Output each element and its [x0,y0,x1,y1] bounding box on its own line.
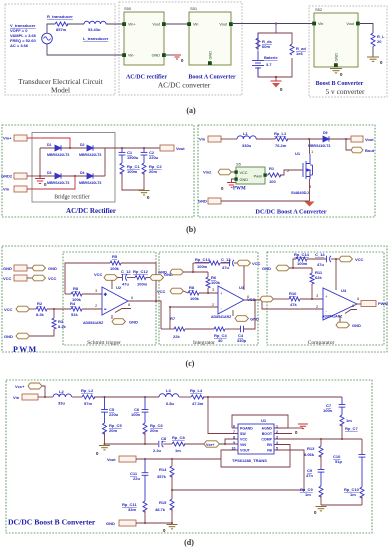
wire EN loop [221,445,290,468]
wire GND pin down [232,179,235,183]
wire rail to C7 [203,396,342,398]
svg-text:R8: R8 [189,285,195,290]
svg-text:D4: D4 [80,171,85,175]
node D1-D2 [69,147,71,149]
port hex VCC (pwm divider) [16,306,30,312]
battery Baterie 3.7 [252,51,264,78]
pin VCC (S5) [234,170,237,173]
resistor R15 [171,490,173,499]
wire C8 rail [105,443,159,445]
wire bridge top rail [40,147,105,149]
ground 0 (bridge) [35,176,45,184]
resistor R14 [171,459,173,466]
resistor Rp_C14 [296,257,307,261]
svg-text:330u: 330u [242,143,252,148]
pin Vin+ [122,22,126,26]
svg-text:6.8u: 6.8u [166,401,175,406]
Comparator dashed box [267,252,384,345]
svg-text:BOOT: BOOT [262,432,273,436]
wire pin2 row [170,306,218,308]
resistor R4 [71,307,82,311]
svg-text:GND: GND [4,334,13,339]
wire Vin2 to VCC [232,171,235,173]
ground 0 (battery) [271,77,282,88]
wire RL to ground [372,47,374,58]
wire R2 to R4 [47,308,71,310]
svg-text:AD8541ARZ: AD8541ARZ [211,315,232,319]
Schmitt trigger dashed box [63,252,156,345]
svg-text:GND: GND [129,320,138,325]
port hex VCC (comp) [339,256,353,262]
wire L3 to RpL4 [179,396,191,398]
wire rp to vxx [184,443,204,445]
pin Vin [187,22,191,26]
wire schmitt output [128,301,161,329]
svg-text:VCC: VCC [252,261,261,266]
chip U1 TPS [238,424,274,454]
svg-text:VCC: VCC [247,297,256,302]
svg-text:R8: R8 [73,286,79,291]
wire source down [309,179,311,201]
pin GND [162,53,166,57]
svg-text:PWM: PWM [378,301,388,306]
wire drain up [309,139,311,154]
svg-text:D2: D2 [80,143,85,147]
svg-text:U3: U3 [239,285,245,290]
resistor Rp_C7 [340,415,344,426]
svg-text:GND: GND [352,323,361,328]
svg-text:Si4840DJ: Si4840DJ [291,190,309,195]
wire c8 to rp [163,443,172,445]
svg-text:VCC: VCC [240,438,248,442]
wire R to L [67,23,84,25]
svg-text:Vout: Vout [107,457,116,462]
resistor R8 (integ) [188,291,199,295]
port Vout (rectifier) [160,145,174,151]
svg-text:EN: EN [267,443,272,447]
wire opamp pin4 [111,315,113,319]
wire R14 bottom [171,476,173,491]
wire pin2 vertical [169,307,171,329]
inductor L1 [237,136,256,139]
svg-text:76.2m: 76.2m [275,143,287,148]
diode D4 [87,173,93,179]
svg-text:VOUT: VOUT [240,449,251,453]
port hex GND (schmitt pwr) [150,275,164,281]
wire integ output [244,300,323,309]
wire integ pin4 gnd [232,310,234,316]
resistor Rp_L4 [191,395,204,399]
port GND rect [14,265,27,271]
svg-text:40: 40 [218,338,223,343]
svg-text:COMP: COMP [261,438,272,442]
wire C10 branch [361,439,363,453]
svg-text:357k: 357k [157,474,167,479]
svg-text:R1: R1 [269,166,275,171]
svg-text:8.2k: 8.2k [36,312,45,317]
svg-text:Rp_L4: Rp_L4 [190,388,203,393]
svg-text:GND: GND [250,317,259,322]
resistor R8 (schmitt +) [65,293,71,295]
ground 0 (rc rail) [316,507,327,511]
svg-text:20m: 20m [149,169,157,174]
wire battery stub [275,24,277,34]
wire R10 to pin3 [300,298,323,300]
node c13 left [192,271,194,273]
pin8 stub [115,309,131,313]
node vin [44,396,46,398]
svg-text:47n: 47n [306,473,313,478]
svg-text:47.3m: 47.3m [192,401,204,406]
source block S5 [236,167,265,184]
resistor R10 [289,297,300,301]
ground 0 (C5) [99,444,110,450]
node C6 [144,396,146,398]
svg-text:1m: 1m [305,492,311,497]
wire c12 to rp [127,277,135,279]
svg-text:1e6: 1e6 [296,51,303,56]
svg-text:Vin2: Vin2 [203,170,212,175]
node battery junction [275,22,277,24]
inductor L_transducer [84,21,106,24]
wire RpL1 to D5 [287,138,323,140]
resistor Rp_C6 [143,423,147,434]
svg-text:47u: 47u [122,282,129,287]
svg-text:PWM: PWM [13,345,38,354]
wire vcc chain [118,277,123,279]
wire S52 Vout to RL [360,24,373,34]
node gnd2 [39,175,41,177]
port Vin (d) [22,394,38,400]
svg-text:Rp_L2: Rp_L2 [81,388,94,393]
svg-text:D3: D3 [47,171,52,175]
svg-text:100: 100 [269,179,276,184]
wire C5 bottom [104,433,106,445]
resistor Rp_L1 [275,137,288,141]
svg-text:MBRS410LT3: MBRS410LT3 [47,153,69,157]
ground 0 (S52) [330,69,342,73]
svg-text:Vin: Vin [193,23,198,27]
svg-text:S51: S51 [190,6,198,11]
wire R15 bottom [171,509,173,524]
Integrator dashed box [159,252,258,345]
svg-text:5 v converter: 5 v converter [326,87,366,96]
capacitor C5 [101,397,108,423]
wire source bottom [47,44,124,55]
svg-text:GND: GND [262,266,271,271]
svg-text:AC/DC Rectifier: AC/DC Rectifier [66,207,116,215]
svg-text:220u: 220u [109,412,119,417]
node SW [207,396,209,398]
svg-text:SW: SW [240,432,246,436]
wire chip top rail [232,415,288,428]
port hex Bout [351,147,363,153]
svg-text:Vout: Vout [346,22,355,26]
svg-text:Vin: Vin [13,395,20,400]
resistor Rp_L2 [82,395,95,399]
svg-text:Rp_C7: Rp_C7 [345,426,358,431]
port hex GND (comp below) [336,322,350,328]
svg-text:L_transducer: L_transducer [83,36,109,41]
svg-text:D5: D5 [323,131,328,135]
svg-text:Vout: Vout [152,23,161,27]
wire L2 to RpL2 [72,396,82,398]
wire R5 to output node [121,263,156,301]
svg-text:MBRS410LT3: MBRS410LT3 [79,181,101,185]
svg-text:VCC: VCC [3,276,12,281]
wire C7 bottom [341,425,343,440]
svg-text:22u: 22u [133,476,140,481]
svg-text:220u: 220u [149,155,159,160]
svg-text:100n: 100n [131,412,141,417]
svg-text:GND: GND [198,199,207,204]
resistor R3 vertical [53,309,55,318]
svg-text:VCC: VCC [240,171,248,175]
svg-text:VCC: VCC [355,257,364,262]
resistor R_transducer [55,22,68,26]
svg-text:60m: 60m [262,44,270,49]
node C2 [143,147,145,149]
svg-text:MBRS410LT3: MBRS410LT3 [47,181,69,185]
svg-text:U1: U1 [295,151,301,156]
svg-text:DC/DC Boost A Converter: DC/DC Boost A Converter [255,209,326,216]
wire Rp_C9 bottom [320,496,322,506]
svg-text:C_13: C_13 [221,257,231,262]
svg-text:47u: 47u [317,262,324,267]
port PWM out [361,301,376,307]
AC/DC Rectifier dashed box [2,125,194,217]
block S51 Boost A Converter [189,12,231,65]
port hex VCC (integ left) [170,288,184,294]
svg-text:S5: S5 [236,162,242,167]
panel c outer dashed box [2,246,387,352]
pin Vin [312,22,316,26]
mosfet U1 Si4840DJ [303,154,313,179]
node D3-D4 [74,175,76,177]
wire pgnd stub [232,427,238,429]
resistor Rp_C11 [143,501,147,512]
svg-text:Vin-: Vin- [128,54,135,58]
block S52 Boost B Converter [314,13,358,67]
wire VOUT loop [221,450,238,459]
svg-text:GND: GND [106,521,115,526]
capacitor C_12 [123,274,128,280]
svg-text:DC/DC Boost B Converter: DC/DC Boost B Converter [8,518,96,527]
port Vout (boost A) [351,136,363,142]
resistor R2 [36,307,47,311]
resistor Rp_C12 [135,276,146,280]
wire D5 to Vout [329,138,351,140]
port hex VCC (comp left) [260,296,274,302]
node c5 gnd [104,443,106,445]
wire bridge bottom rail [40,175,105,177]
svg-text:VCC: VCC [157,289,166,294]
ground 0 (RL) [367,57,379,61]
svg-text:33m: 33m [128,507,136,512]
pin GND (S5) [234,177,237,180]
svg-text:GND: GND [48,266,57,271]
port GND (d) [119,520,136,526]
svg-text:C_12: C_12 [121,269,131,274]
wire gnd to R11 [290,267,313,269]
wire Rp_C10 bottom [361,497,363,506]
svg-text:Vcc+: Vcc+ [15,384,25,389]
svg-text:Rp_C14: Rp_C14 [294,252,310,257]
pin8 stub comp [345,310,357,314]
svg-text:R7: R7 [170,316,176,321]
port hex GND (schmitt below) [112,319,126,325]
svg-text:62k: 62k [315,275,322,280]
resistor R11 vertical [311,268,313,273]
diode D5 [323,136,329,142]
svg-text:PGAND: PGAND [240,427,253,431]
svg-text:S50: S50 [124,6,132,11]
capacitor C7 [339,397,346,415]
resistor R7 [161,328,174,330]
svg-text:MBRS410LT3: MBRS410LT3 [79,153,101,157]
capacitor C_14 [307,256,331,262]
wire source top [47,24,55,33]
svg-text:GND2: GND2 [1,174,13,179]
resistor Rp_C1 [120,163,124,174]
port hex GND (integ below) [235,316,249,322]
pin Vout [356,22,360,26]
resistor Rp_C4 [214,327,225,331]
wire vcc pwr down [111,280,113,289]
svg-text:TPS61288_TRANS: TPS61288_TRANS [232,458,267,463]
svg-text:57m: 57m [84,401,92,406]
svg-text:GND: GND [3,266,12,271]
wire R1 to gate [280,170,303,175]
svg-text:Bridge rectifier: Bridge rectifier [54,194,90,201]
bridge rectifier box [32,133,115,203]
svg-text:1500u: 1500u [127,155,139,160]
svg-text:Rp_C13: Rp_C13 [195,257,211,262]
resistor Rp_C10 [360,487,364,498]
wire C1 bottom [122,173,144,191]
capacitor C1 [119,148,126,163]
resistor Rp_C9 [319,486,323,497]
svg-text:Comparator: Comparator [308,340,335,346]
wire gnd pair [27,267,32,269]
svg-text:100m: 100m [297,261,308,266]
resistor R_L [371,33,375,46]
wire COMP rail [274,438,362,440]
svg-text:7: 7 [233,430,235,434]
diode D2 [87,145,93,151]
svg-text:AGND: AGND [262,427,273,431]
wire output rail [105,147,160,149]
svg-text:3.7: 3.7 [266,62,272,67]
ground source triangle [305,202,315,207]
wire GND rail [221,200,310,202]
wire C2 bottom [143,173,145,191]
wire vin to L2 [38,396,53,398]
port Vin (boost A) [208,136,221,142]
pin Pwm (S5) [263,173,266,176]
svg-text:R2: R2 [37,301,43,306]
node R6 bottom [207,292,209,294]
svg-text:+: + [104,292,107,297]
capacitor C10 [359,453,366,487]
svg-text:R14: R14 [159,467,167,472]
pin GND bottom [208,61,212,65]
port hex Vxx+ [204,441,219,447]
svg-text:PWM: PWM [233,187,246,192]
svg-text:U1: U1 [261,418,267,423]
svg-text:FB: FB [267,449,272,453]
5v converter dashed box [309,6,387,97]
svg-text:Vin: Vin [318,22,323,26]
svg-text:U2: U2 [116,285,122,290]
node C5 [104,396,106,398]
port hex VCC (integ top) [237,260,251,266]
svg-text:GND: GND [152,54,161,58]
svg-text:Vin+: Vin+ [128,23,136,27]
svg-text:Vin: Vin [3,187,10,192]
port VCC rect [14,275,27,281]
wire vout row [136,458,221,460]
svg-text:Vout: Vout [176,146,185,151]
wire C6 bottom [144,433,146,445]
port hex VCC [32,275,46,281]
svg-text:S52: S52 [315,7,323,12]
svg-text:Vout: Vout [365,137,374,142]
wire vcc+ down [42,386,45,397]
svg-text:VCC: VCC [4,307,13,312]
wire gnd hex right [184,271,209,273]
port hex GND [32,265,46,271]
pin Vout [229,22,233,26]
svg-text:AD8541ARZ: AD8541ARZ [83,321,104,325]
ground 0 (S5) [227,183,236,188]
svg-text:1m: 1m [346,418,352,423]
svg-text:Vin: Vin [199,137,206,142]
svg-text:47u: 47u [222,265,229,270]
port Vin- [14,186,27,192]
op-amp U3 [218,286,244,314]
wire FB loop [172,450,304,490]
wire L1 to RpL1 [256,138,275,140]
svg-text:R13: R13 [307,446,315,451]
svg-text:R_transducer: R_transducer [47,14,73,19]
wire comp pwr down [335,259,337,290]
wire rp to gnd hex [146,277,150,279]
op-amp U2 [102,287,128,315]
node C1 [121,147,123,149]
AC source V_transducer [42,33,53,44]
port hex GND (pwm divider) [16,333,30,339]
resistor Rp_C2 [142,163,146,174]
svg-text:(b): (b) [186,225,196,234]
svg-text:Pwm: Pwm [254,175,262,179]
svg-text:100k: 100k [211,280,221,285]
wire R8 to pin3 [82,293,102,295]
svg-text:MBRS410LT3: MBRS410LT3 [308,144,330,148]
svg-text:R15: R15 [159,500,167,505]
svg-text:1m: 1m [350,492,356,497]
svg-text:VCC: VCC [48,276,57,281]
wire R8i to pin3 [199,292,218,294]
wire C14 to VCC hex [331,258,339,260]
svg-text:D1: D1 [47,143,52,147]
wire agnd to ground [288,427,303,429]
diode D1 [55,145,61,151]
port GND (boost A) [208,198,221,204]
capacitor C6 [142,397,149,423]
wire vcc pair [27,277,32,279]
capacitor C_13 [220,260,234,266]
